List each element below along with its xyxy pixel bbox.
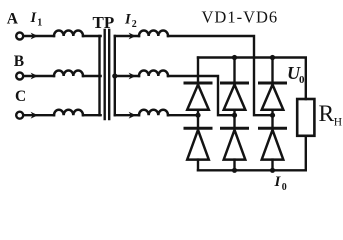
node secondary star tap B	[112, 73, 117, 78]
svg-text:0: 0	[282, 182, 287, 193]
wire leg 2 bottom	[233, 160, 235, 171]
svg-text:I: I	[124, 12, 132, 28]
svg-text:Н: Н	[334, 116, 342, 128]
diode VD5 triangle	[224, 130, 246, 160]
terminal C	[16, 112, 23, 119]
wire primary C to star bus	[83, 114, 101, 116]
diode VD2 triangle	[224, 85, 246, 110]
arrow I1 phase C	[31, 112, 38, 119]
wire phase A primary	[24, 35, 54, 37]
arrow I2 phase A	[129, 33, 136, 40]
wire negative bus (anode rail)	[198, 136, 306, 170]
arrow I1 phase A	[31, 33, 38, 40]
wire secondary C to bridge leg 1	[168, 114, 198, 116]
diode VD4 cathode bar	[185, 127, 211, 130]
winding primary C	[54, 110, 83, 116]
diode VD1 cathode bar	[185, 82, 211, 85]
wire leg 3 top	[271, 58, 273, 82]
svg-text:1: 1	[37, 17, 42, 28]
wire secondary B from bus	[115, 75, 139, 77]
label I1 (primary current)	[30, 10, 43, 29]
wire secondary B to bridge leg 2	[168, 76, 235, 115]
winding primary A	[54, 30, 83, 36]
diode VD1 triangle	[187, 85, 209, 110]
svg-text:2: 2	[132, 19, 137, 30]
wire leg 1 middle	[197, 110, 199, 127]
terminal A	[16, 33, 23, 40]
diode VD3 cathode bar	[260, 82, 286, 85]
wire secondary A from bus	[115, 35, 139, 37]
svg-text:R: R	[319, 101, 335, 127]
terminal B	[16, 73, 23, 80]
svg-text:B: B	[14, 53, 24, 70]
svg-text:VD1-VD6: VD1-VD6	[202, 8, 279, 27]
svg-text:A: A	[7, 10, 19, 27]
node leg 1 phase tap	[195, 113, 200, 118]
diode VD2 cathode bar	[222, 82, 248, 85]
wire secondary C from bus	[115, 114, 139, 116]
node leg 3 phase tap	[270, 113, 275, 118]
node cathode bus leg 2	[232, 55, 237, 60]
diode VD5 cathode bar	[222, 127, 248, 130]
node cathode bus leg 3	[270, 55, 275, 60]
svg-text:C: C	[15, 88, 26, 105]
svg-text:0: 0	[299, 74, 305, 86]
node leg 2 phase tap	[232, 113, 237, 118]
wire positive bus (cathode rail)	[198, 58, 306, 100]
node anode bus leg 3	[270, 168, 275, 173]
wire primary A to star bus	[83, 35, 101, 37]
label I2 (secondary current)	[124, 12, 137, 31]
svg-text:I: I	[30, 10, 38, 26]
svg-text:TP: TP	[93, 13, 115, 32]
svg-text:I: I	[274, 174, 282, 190]
wire phase C primary	[24, 114, 54, 116]
winding secondary B	[139, 70, 168, 76]
diode VD6 cathode bar	[260, 127, 286, 130]
wire primary B to star bus	[83, 75, 101, 77]
wire leg 3 bottom	[271, 160, 273, 171]
wire leg 2 middle	[233, 110, 235, 127]
diode VD3 triangle	[262, 85, 284, 110]
label I0 (output current)	[274, 174, 287, 193]
wire leg 3 middle	[271, 110, 273, 127]
arrow I1 phase B	[31, 73, 38, 80]
wire leg 1 bottom	[197, 160, 199, 171]
arrow I2 phase C	[129, 112, 136, 119]
node anode bus leg 2	[232, 168, 237, 173]
label RH (load resistor)	[319, 101, 343, 129]
wire leg 2 top	[233, 58, 235, 82]
label U0 (output voltage)	[287, 63, 305, 86]
winding secondary C	[139, 110, 168, 116]
winding primary B	[54, 70, 83, 76]
transformer TP core bar right	[108, 30, 110, 119]
wire secondary A to bridge leg 3	[168, 36, 273, 115]
resistor RH body	[297, 99, 314, 136]
wire leg 1 top	[197, 58, 199, 82]
wire secondary star bus	[114, 36, 116, 115]
winding secondary A	[139, 30, 168, 36]
wire primary star bus	[98, 36, 100, 115]
diode VD6 triangle	[262, 130, 284, 160]
transformer TP core bar left	[103, 30, 105, 119]
arrow I2 phase B	[129, 73, 136, 80]
wire phase B primary	[24, 75, 54, 77]
diode VD4 triangle	[187, 130, 209, 160]
